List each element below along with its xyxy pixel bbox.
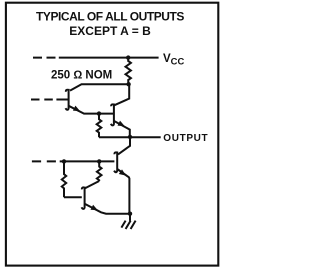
wire input A to Q3 base xyxy=(60,160,115,162)
node dot input A / R4 top xyxy=(97,159,101,163)
wire Q1 collector to R1 bottom xyxy=(70,84,129,90)
resistor R3 xyxy=(62,161,66,197)
wire Q3 emitter to ground column xyxy=(117,169,129,214)
wire Q4 collector xyxy=(85,181,99,188)
svg-text:VCC: VCC xyxy=(163,53,184,67)
arrow Q3 emitter xyxy=(119,169,126,175)
svg-text:TYPICAL OF ALL OUTPUTS: TYPICAL OF ALL OUTPUTS xyxy=(36,10,184,24)
node dot ground xyxy=(128,212,132,216)
node dot input A / R3 top xyxy=(62,159,66,163)
wire Vcc rail dashes xyxy=(33,57,56,59)
arrow Q4 emitter xyxy=(91,205,98,211)
transistor Q2 base bar xyxy=(111,104,114,126)
wire input B xyxy=(56,99,68,101)
transistor Q4 base bar xyxy=(82,187,85,209)
node dot R1 bottom xyxy=(126,82,130,86)
wire Q4 emitter to ground line xyxy=(85,204,130,214)
ground symbol xyxy=(121,221,135,229)
wire output line xyxy=(99,136,161,138)
node dot Q1 emitter / R2 top xyxy=(97,111,101,115)
resistor R1 250 ohm xyxy=(125,58,130,85)
svg-text:EXCEPT A = B: EXCEPT A = B xyxy=(69,24,151,38)
border frame xyxy=(6,3,218,266)
svg-text:250 Ω NOM: 250 Ω NOM xyxy=(51,69,112,81)
wire Vcc rail xyxy=(59,57,159,59)
wire Q2 emitter to output node xyxy=(114,121,130,137)
wire Q1 emitter xyxy=(69,106,113,114)
node dot output xyxy=(128,135,132,139)
transistor Q1 base bar xyxy=(66,89,69,110)
svg-text:OUTPUT: OUTPUT xyxy=(163,133,208,144)
ground lead xyxy=(129,214,131,221)
wire Q3 collector from output node xyxy=(118,137,130,154)
arrow Q2 emitter xyxy=(118,121,125,127)
arrow Q1 emitter xyxy=(73,106,80,112)
resistor R4 xyxy=(97,161,102,181)
node dot Vcc/R1 xyxy=(126,55,130,59)
wire Q2 collector xyxy=(114,84,129,105)
wire R3 bottom to Q4 base xyxy=(64,196,82,198)
transistor Q3 base bar xyxy=(114,152,117,173)
resistor R2 xyxy=(97,114,102,138)
wire input A dashes xyxy=(32,160,56,162)
wire input B dashes xyxy=(31,99,53,101)
